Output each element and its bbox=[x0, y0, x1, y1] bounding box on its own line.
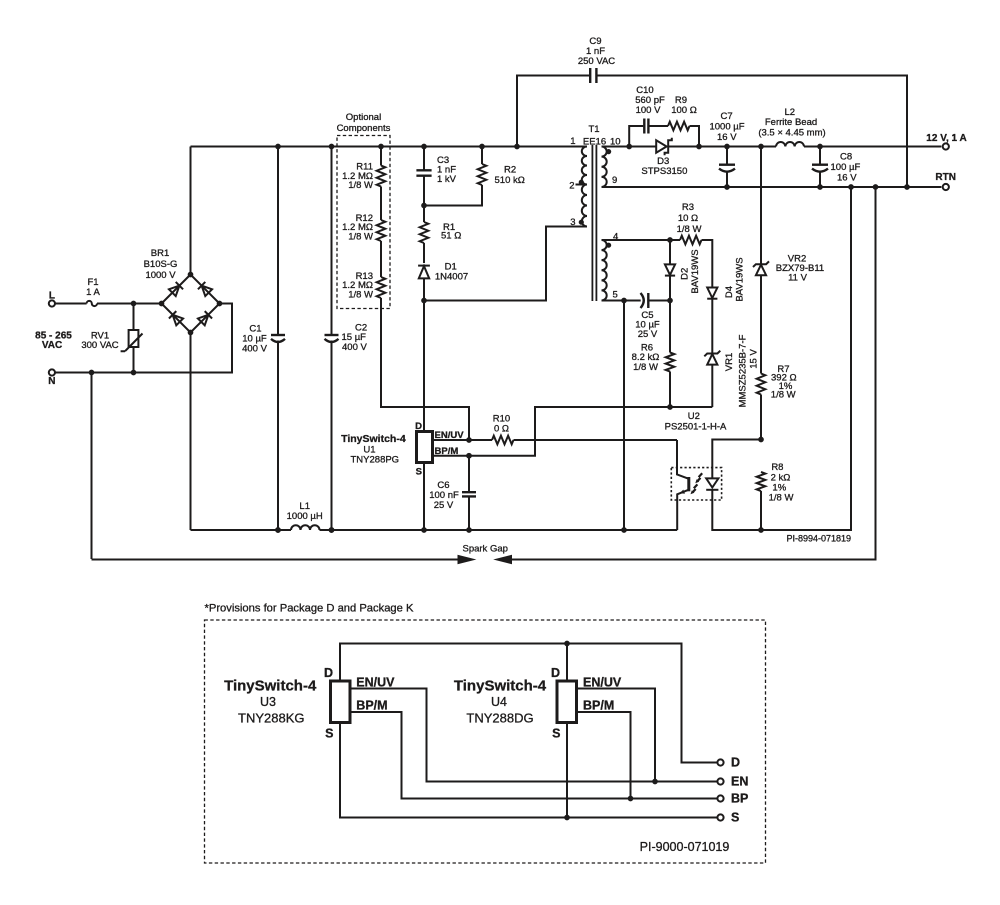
wire U4 BP bbox=[577, 712, 631, 799]
capacitor C7 bbox=[709, 111, 744, 187]
junction C3-R2 link bbox=[421, 203, 427, 209]
svg-text:1/8 W: 1/8 W bbox=[348, 231, 373, 242]
svg-text:100 V: 100 V bbox=[636, 105, 661, 116]
bridge rectifier BR1 bbox=[144, 248, 223, 335]
terminal RTN bbox=[935, 172, 956, 190]
svg-text:EN/UV: EN/UV bbox=[583, 675, 622, 689]
svg-text:TinySwitch-4: TinySwitch-4 bbox=[224, 677, 317, 694]
wire EN pin bbox=[433, 439, 493, 441]
svg-text:12 V, 1 A: 12 V, 1 A bbox=[926, 133, 966, 144]
svg-text:PI-8994-071819: PI-8994-071819 bbox=[786, 533, 851, 543]
wire pin10 to D3 bbox=[602, 146, 657, 148]
junction RTN-C9 bbox=[904, 184, 910, 190]
svg-text:D: D bbox=[415, 421, 422, 432]
svg-text:510 kΩ: 510 kΩ bbox=[495, 175, 525, 186]
optocoupler U2 bbox=[665, 411, 727, 530]
junction C9 riser bbox=[514, 144, 520, 150]
wire pin4 line bbox=[602, 239, 681, 241]
phase dot pin3 bbox=[579, 220, 584, 225]
svg-text:1000 V: 1000 V bbox=[145, 270, 176, 281]
phase dot pin4 bbox=[606, 243, 611, 248]
junction L-RV1 bbox=[131, 301, 137, 307]
svg-text:1N4007: 1N4007 bbox=[435, 272, 468, 283]
junction BP-C6 bbox=[466, 453, 472, 459]
wire U3 EN bbox=[350, 689, 717, 782]
junction R2 top bbox=[479, 144, 485, 150]
junction C8 top bbox=[817, 144, 823, 150]
svg-text:11 V: 11 V bbox=[788, 273, 808, 284]
wire RTN rail bbox=[602, 186, 942, 188]
svg-text:TinySwitch-4: TinySwitch-4 bbox=[454, 677, 547, 694]
svg-text:16 V: 16 V bbox=[717, 132, 737, 143]
junction U4 EN bbox=[652, 779, 658, 785]
junction VR2 tap bbox=[758, 144, 764, 150]
transformer T1 labels bbox=[569, 124, 620, 300]
svg-text:U2: U2 bbox=[688, 411, 700, 422]
IC U4 TinySwitch-4 bbox=[454, 666, 622, 741]
svg-text:EN: EN bbox=[731, 775, 748, 789]
wire primary earth drop bbox=[91, 373, 93, 560]
terminal D bbox=[717, 756, 740, 770]
svg-text:B10S-G: B10S-G bbox=[144, 259, 178, 270]
wire U1 source bbox=[423, 463, 425, 531]
wire bridge to bottom rail bbox=[190, 333, 192, 531]
svg-text:TNY288PG: TNY288PG bbox=[351, 454, 400, 465]
svg-text:C7: C7 bbox=[721, 111, 733, 122]
junction R7-LED bbox=[758, 437, 764, 443]
wire R2 bottom link bbox=[424, 185, 482, 206]
junction N-earth bbox=[89, 370, 95, 376]
capacitor C10 bbox=[629, 85, 668, 147]
wire R9 to D3 cathode bbox=[690, 126, 700, 147]
svg-text:BP/M: BP/M bbox=[435, 446, 459, 457]
svg-text:400 V: 400 V bbox=[342, 342, 367, 353]
capacitor C3 bbox=[416, 147, 456, 223]
label PI-8994-071819 bbox=[786, 533, 851, 543]
svg-text:D4: D4 bbox=[724, 286, 735, 298]
svg-text:(3.5 × 4.45 mm): (3.5 × 4.45 mm) bbox=[758, 128, 825, 139]
wire BP feedback line bbox=[433, 407, 713, 456]
transformer T1 secondary winding 4-5 bbox=[602, 240, 607, 300]
svg-text:R8: R8 bbox=[771, 462, 783, 473]
junction pin4-D2 bbox=[667, 237, 673, 243]
terminal N bbox=[48, 369, 55, 386]
provisions box bbox=[205, 620, 766, 863]
svg-text:N: N bbox=[48, 376, 55, 387]
wire fuse to bridge bbox=[97, 303, 162, 305]
svg-text:BAV19WS: BAV19WS bbox=[734, 257, 745, 301]
wire EN to opto collector bbox=[514, 439, 678, 441]
svg-text:51 Ω: 51 Ω bbox=[441, 231, 461, 242]
capacitor C8 bbox=[812, 147, 860, 188]
svg-text:100 Ω: 100 Ω bbox=[671, 105, 697, 116]
svg-text:T1: T1 bbox=[588, 124, 599, 135]
svg-text:16 V: 16 V bbox=[837, 173, 857, 184]
ferrite bead L2 bbox=[758, 107, 825, 147]
junction S-rail bbox=[421, 527, 427, 533]
wire U4 source bbox=[566, 723, 568, 818]
junction C5-D2-R6 bbox=[667, 298, 673, 304]
junction C8 bottom bbox=[817, 184, 823, 190]
svg-text:BP/M: BP/M bbox=[583, 699, 614, 713]
wire L to fuse bbox=[55, 303, 87, 305]
junction R8-rail bbox=[758, 527, 764, 533]
wire LED anode link bbox=[712, 440, 761, 479]
svg-text:300 VAC: 300 VAC bbox=[81, 340, 118, 351]
capacitor C6 bbox=[429, 456, 476, 530]
svg-text:PS2501-1-H-A: PS2501-1-H-A bbox=[665, 422, 727, 433]
svg-text:1/8 W: 1/8 W bbox=[771, 390, 796, 401]
svg-text:S: S bbox=[416, 467, 422, 478]
phase dot pin2 bbox=[579, 180, 584, 185]
junction U4 BP bbox=[628, 796, 634, 802]
optional components box bbox=[337, 112, 391, 309]
svg-text:RTN: RTN bbox=[935, 172, 956, 183]
svg-text:400 V: 400 V bbox=[242, 343, 267, 354]
wire secondary rail bbox=[712, 187, 851, 530]
svg-text:5: 5 bbox=[613, 289, 618, 300]
wire R3 to D4 bbox=[702, 240, 713, 288]
junction C7 bottom bbox=[724, 184, 730, 190]
svg-text:1 A: 1 A bbox=[86, 287, 100, 298]
svg-text:1/8 W: 1/8 W bbox=[348, 289, 373, 300]
junction C7 top bbox=[724, 144, 730, 150]
junction L1 left bbox=[275, 527, 281, 533]
resistor R2 bbox=[478, 147, 525, 187]
wire U4 drain bbox=[566, 644, 568, 682]
label PI-9000-071019 bbox=[640, 840, 730, 854]
junction D1-drain bbox=[421, 298, 427, 304]
svg-text:Components: Components bbox=[337, 123, 391, 134]
svg-text:*Provisions for Package D and: *Provisions for Package D and Package K bbox=[205, 603, 414, 615]
junction pin10-C10 bbox=[626, 144, 632, 150]
junction L1 right bbox=[329, 527, 335, 533]
junction U4 source bbox=[564, 815, 570, 821]
terminal S bbox=[717, 811, 739, 825]
svg-text:250 VAC: 250 VAC bbox=[578, 56, 615, 67]
diode D1 bbox=[418, 261, 468, 300]
wire N line bbox=[55, 304, 232, 373]
wire drain to U1 D bbox=[423, 301, 425, 432]
wire pin5 return drop bbox=[623, 301, 625, 531]
wire L2 to 12V terminal bbox=[804, 146, 941, 148]
resistor R9 bbox=[668, 95, 697, 130]
junction C3 top bbox=[421, 144, 427, 150]
capacitor C5 bbox=[635, 293, 670, 340]
svg-text:1/8 W: 1/8 W bbox=[348, 180, 373, 191]
wire D3 to L2 bbox=[668, 146, 776, 148]
svg-text:TNY288DG: TNY288DG bbox=[466, 711, 533, 726]
wire U4 EN bbox=[577, 689, 656, 782]
junction D3-R9 bbox=[696, 144, 702, 150]
junction C2 top bbox=[329, 144, 335, 150]
svg-text:1: 1 bbox=[570, 136, 575, 147]
svg-text:VR1: VR1 bbox=[724, 353, 735, 371]
wire pin5 line bbox=[602, 300, 641, 302]
junction C6-rail bbox=[466, 527, 472, 533]
junction C1 bottom bbox=[275, 527, 281, 533]
svg-text:U3: U3 bbox=[260, 695, 276, 709]
terminal EN bbox=[717, 775, 748, 789]
junction RTN-earth riser bbox=[873, 184, 879, 190]
wire U3 source bbox=[340, 723, 717, 818]
zener VR1 bbox=[704, 334, 759, 407]
wire bottom rail right bbox=[320, 529, 678, 531]
svg-text:1/8 W: 1/8 W bbox=[677, 224, 702, 235]
svg-text:D2: D2 bbox=[680, 268, 691, 280]
junction EN-R13 bbox=[466, 437, 472, 443]
IC U1 TinySwitch-4 bbox=[341, 421, 464, 478]
svg-text:0 Ω: 0 Ω bbox=[494, 424, 509, 435]
svg-text:D: D bbox=[324, 666, 333, 680]
svg-text:S: S bbox=[325, 727, 333, 741]
label provisions title bbox=[205, 603, 414, 615]
capacitor C9 bbox=[517, 36, 907, 187]
resistor R7 bbox=[757, 364, 797, 440]
svg-text:3: 3 bbox=[570, 217, 575, 228]
resistor R1 bbox=[420, 222, 462, 263]
phase dot pin10 bbox=[606, 149, 611, 154]
svg-text:BR1: BR1 bbox=[151, 248, 169, 259]
svg-text:1/8 W: 1/8 W bbox=[633, 362, 658, 373]
resistor R6 bbox=[632, 301, 675, 408]
transformer T1 secondary winding 10-9 bbox=[602, 147, 607, 187]
IC U3 TinySwitch-4 bbox=[224, 666, 395, 741]
resistor R13 bbox=[342, 241, 385, 300]
wire DC bus top rail bbox=[191, 146, 588, 148]
svg-text:R3: R3 bbox=[682, 202, 694, 213]
terminal BP bbox=[717, 792, 748, 806]
resistor R3 bbox=[677, 202, 702, 244]
spark gap bbox=[92, 187, 876, 564]
svg-text:2: 2 bbox=[569, 180, 574, 191]
svg-text:VAC: VAC bbox=[42, 340, 62, 351]
transformer T1 core bbox=[592, 145, 596, 301]
svg-text:D: D bbox=[551, 666, 560, 680]
transformer T1 primary winding bbox=[576, 147, 588, 227]
inductor L1 bbox=[287, 501, 323, 530]
diode D4 bbox=[707, 257, 745, 352]
junction return-rail bbox=[621, 527, 627, 533]
capacitor C1 bbox=[242, 147, 285, 531]
svg-text:PI-9000-071019: PI-9000-071019 bbox=[640, 840, 730, 854]
svg-text:25 V: 25 V bbox=[638, 329, 658, 340]
varistor RV1 bbox=[81, 304, 142, 373]
svg-text:BP/M: BP/M bbox=[356, 699, 387, 713]
svg-text:Ferrite Bead: Ferrite Bead bbox=[765, 117, 817, 128]
junction R11 top bbox=[378, 144, 384, 150]
svg-text:9: 9 bbox=[612, 175, 617, 186]
wire R13 to EN line bbox=[381, 298, 469, 440]
junction C1 top bbox=[275, 144, 281, 150]
junction pin5-return bbox=[621, 298, 627, 304]
svg-text:1000 µH: 1000 µH bbox=[287, 511, 323, 522]
terminal L bbox=[49, 291, 55, 307]
svg-text:TinySwitch-4: TinySwitch-4 bbox=[341, 433, 406, 445]
svg-text:L: L bbox=[49, 291, 55, 302]
svg-text:MMSZ5235B-7-F: MMSZ5235B-7-F bbox=[738, 334, 749, 407]
fuse F1 bbox=[86, 277, 100, 306]
terminal 12V bbox=[926, 133, 966, 150]
junction R6-BP line bbox=[667, 404, 673, 410]
wire U3 drain top bbox=[340, 644, 717, 763]
svg-text:TNY288KG: TNY288KG bbox=[238, 711, 304, 726]
svg-text:D: D bbox=[731, 756, 740, 770]
resistor R8 bbox=[757, 462, 794, 530]
resistor R12 bbox=[342, 187, 385, 243]
wire U3 BP bbox=[350, 712, 717, 799]
svg-text:R2: R2 bbox=[504, 164, 516, 175]
svg-text:15 V: 15 V bbox=[749, 349, 760, 369]
wire bridge to DC bus bbox=[190, 147, 192, 275]
label input voltage bbox=[35, 331, 72, 352]
svg-text:S: S bbox=[552, 727, 560, 741]
capacitor C2 bbox=[325, 147, 368, 531]
svg-text:Spark Gap: Spark Gap bbox=[462, 544, 507, 555]
svg-text:BAV19WS: BAV19WS bbox=[690, 249, 701, 293]
svg-text:100 µF: 100 µF bbox=[831, 162, 861, 173]
svg-text:C8: C8 bbox=[840, 151, 852, 162]
junction U4 drain bbox=[564, 641, 570, 647]
svg-text:1 kV: 1 kV bbox=[437, 174, 457, 185]
junction C2 bottom bbox=[329, 527, 335, 533]
svg-text:25 V: 25 V bbox=[434, 500, 454, 511]
svg-text:10 Ω: 10 Ω bbox=[678, 213, 698, 224]
svg-text:EN/UV: EN/UV bbox=[356, 675, 395, 689]
resistor R10 bbox=[492, 414, 513, 445]
resistor R11 bbox=[342, 147, 385, 192]
svg-text:Optional: Optional bbox=[346, 112, 381, 123]
junction N-RV1 bbox=[131, 370, 137, 376]
zener VR2 bbox=[753, 147, 824, 374]
junction RTN-rail riser bbox=[848, 184, 854, 190]
diode D3 bbox=[641, 138, 687, 177]
wire bottom rail left bbox=[191, 529, 292, 531]
svg-text:STPS3150: STPS3150 bbox=[641, 166, 687, 177]
svg-text:L2: L2 bbox=[785, 107, 796, 118]
svg-text:S: S bbox=[731, 811, 739, 825]
diode D2 bbox=[665, 240, 701, 301]
svg-text:BP: BP bbox=[731, 792, 748, 806]
svg-text:1/8 W: 1/8 W bbox=[769, 493, 794, 504]
svg-text:U4: U4 bbox=[491, 695, 507, 709]
wire clamp to pin3 bbox=[424, 227, 587, 301]
